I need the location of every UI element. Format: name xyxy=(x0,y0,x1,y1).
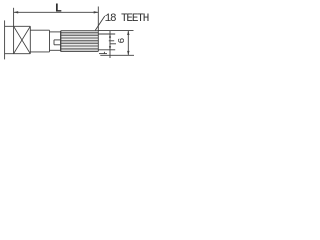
svg-text:18 TEETH: 18 TEETH xyxy=(105,13,149,25)
svg-text:L: L xyxy=(55,1,62,15)
svg-text:6: 6 xyxy=(116,37,127,43)
